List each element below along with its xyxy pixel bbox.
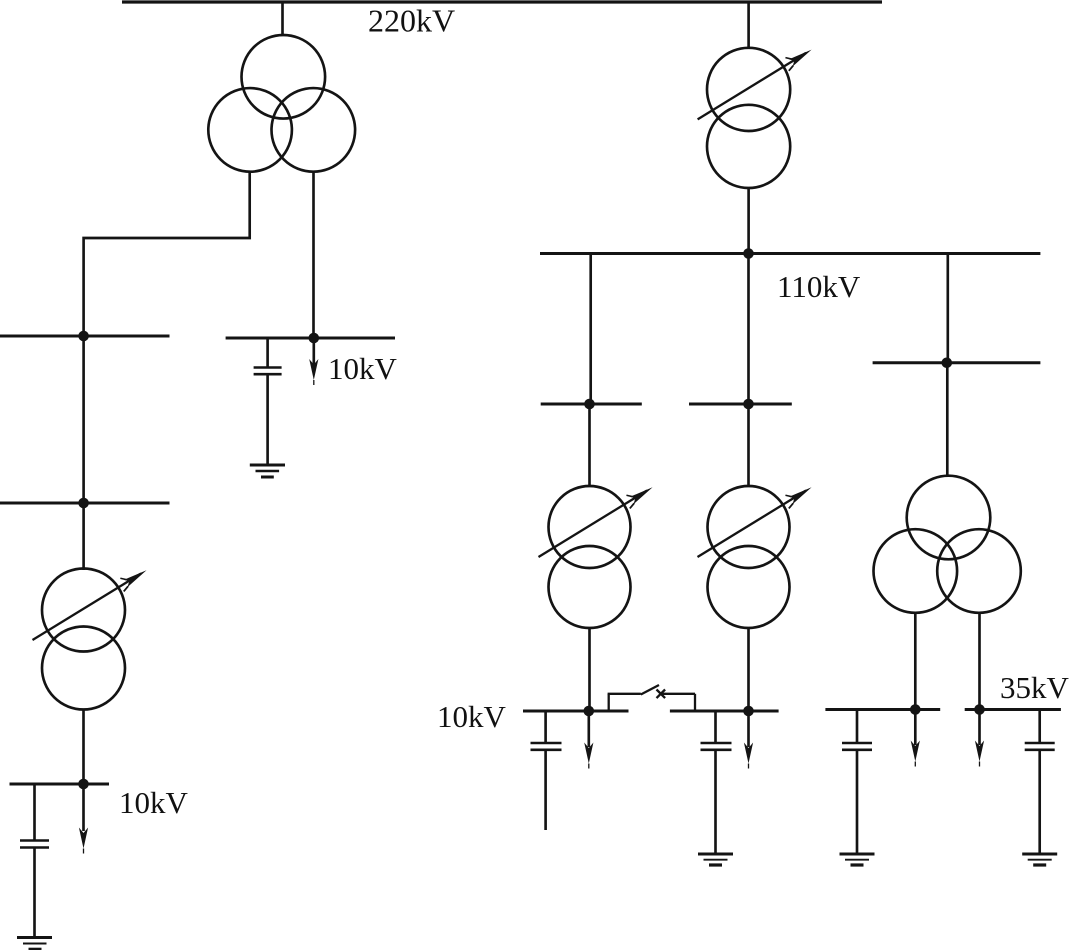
node on bus B xyxy=(78,498,89,509)
bus 35kV left section xyxy=(825,708,940,711)
small bus 1 xyxy=(541,403,642,406)
wire bus A to bus B xyxy=(82,336,85,503)
capacitor C4 xyxy=(701,743,732,750)
svg-text:10kV: 10kV xyxy=(437,699,507,734)
load arrow bottom-left section xyxy=(584,711,593,769)
load arrow 35kV right xyxy=(975,710,984,767)
capacitor C3 xyxy=(531,743,562,750)
transformer T6 (three-winding 110/35/10) xyxy=(874,476,1021,613)
small bus 2 xyxy=(689,403,792,406)
node xyxy=(584,399,595,410)
bus 10kV (left bottom) xyxy=(10,783,110,786)
transformer T2 (OLTC two-winding) xyxy=(42,569,125,710)
wire feeder 1 from 110kV bus xyxy=(589,254,592,405)
small bus 3 xyxy=(873,361,1041,364)
node xyxy=(309,333,320,344)
node on bus A xyxy=(78,331,89,342)
transformer T1 (three-winding 220kV) xyxy=(208,35,355,172)
load arrow 35kV left xyxy=(911,710,920,767)
capacitor C5 branch xyxy=(856,710,859,744)
T3 tap-changer arrow xyxy=(698,53,806,120)
svg-text:10kV: 10kV xyxy=(328,351,398,386)
transformer T5 (OLTC 110/10) xyxy=(708,486,790,628)
wire small bus 3 to T6 xyxy=(946,363,949,477)
capacitor C2 xyxy=(254,368,282,375)
node xyxy=(942,358,953,369)
node xyxy=(974,704,985,715)
capacitor C5 xyxy=(842,743,872,750)
wire T1 left winding elbow to left feeder xyxy=(84,171,250,337)
wire 220kV bus to T1 xyxy=(281,2,284,36)
wire 220kV bus to T3 xyxy=(747,2,750,48)
wire T1 right winding down to 10kV bus xyxy=(312,171,315,339)
svg-text:35kV: 35kV xyxy=(1000,670,1070,705)
wire T3 to 110kV bus xyxy=(747,188,750,254)
bus 10kV bottom left section xyxy=(523,710,629,713)
load arrow (mid left) xyxy=(309,338,318,385)
capacitor C3 branch xyxy=(544,711,547,743)
ground (mid left) xyxy=(250,465,285,477)
ground (35kV left) xyxy=(840,854,875,865)
capacitor C6 branch xyxy=(1038,710,1041,744)
svg-text:220kV: 220kV xyxy=(368,3,455,39)
wire bus B to T2 xyxy=(82,503,85,570)
ground (35kV right) xyxy=(1022,854,1057,865)
wire small bus 2 to T5 xyxy=(747,404,750,486)
capacitor C2 branch wire xyxy=(266,338,269,368)
node xyxy=(78,779,89,790)
bus 10kV bottom right section xyxy=(670,710,779,713)
bus 220kV xyxy=(122,0,882,3)
T5 tap-changer arrow xyxy=(698,491,807,558)
bus B (left lower) xyxy=(0,502,170,505)
bus 110kV xyxy=(540,252,1040,255)
capacitor C1 branch wire xyxy=(33,784,36,841)
load arrow bottom-right section xyxy=(744,711,753,769)
node xyxy=(743,706,754,717)
wire T5 to bottom 10kV bus right section xyxy=(747,628,750,711)
ground (left bottom) xyxy=(17,938,52,950)
capacitor C6 xyxy=(1025,743,1055,750)
transformer T3 (OLTC 220/110) xyxy=(707,48,790,188)
capacitor C1 xyxy=(20,841,49,848)
sectionalizing switch between 10kV sections xyxy=(608,685,695,711)
wire T2 to 10kV bus (left bottom) xyxy=(82,709,85,784)
svg-text:10kV: 10kV xyxy=(119,785,189,820)
node on 110kV bus xyxy=(743,248,754,259)
capacitor C4 branch xyxy=(714,711,717,743)
T2 tap-changer arrow xyxy=(33,574,142,641)
node xyxy=(743,399,754,410)
node xyxy=(910,704,921,715)
wire T6 left winding down xyxy=(914,612,917,710)
bus A (left upper) xyxy=(0,335,170,338)
wire feeder 3 from 110kV bus xyxy=(946,254,949,363)
wire small bus 1 to T4 xyxy=(588,404,591,486)
wire feeder 2 from 110kV node xyxy=(747,254,750,405)
load arrow (left bottom) xyxy=(79,784,88,854)
ground (bottom centre) xyxy=(698,854,733,865)
node xyxy=(584,706,595,717)
transformer T4 (OLTC 110/10) xyxy=(549,486,631,628)
wire T6 right winding down xyxy=(978,612,981,710)
wire T4 to bottom 10kV bus left section xyxy=(588,628,591,711)
T4 tap-changer arrow xyxy=(539,491,648,558)
svg-text:110kV: 110kV xyxy=(777,269,861,304)
bus 35kV right section xyxy=(965,708,1061,711)
bus 10kV (mid left) xyxy=(226,337,395,340)
